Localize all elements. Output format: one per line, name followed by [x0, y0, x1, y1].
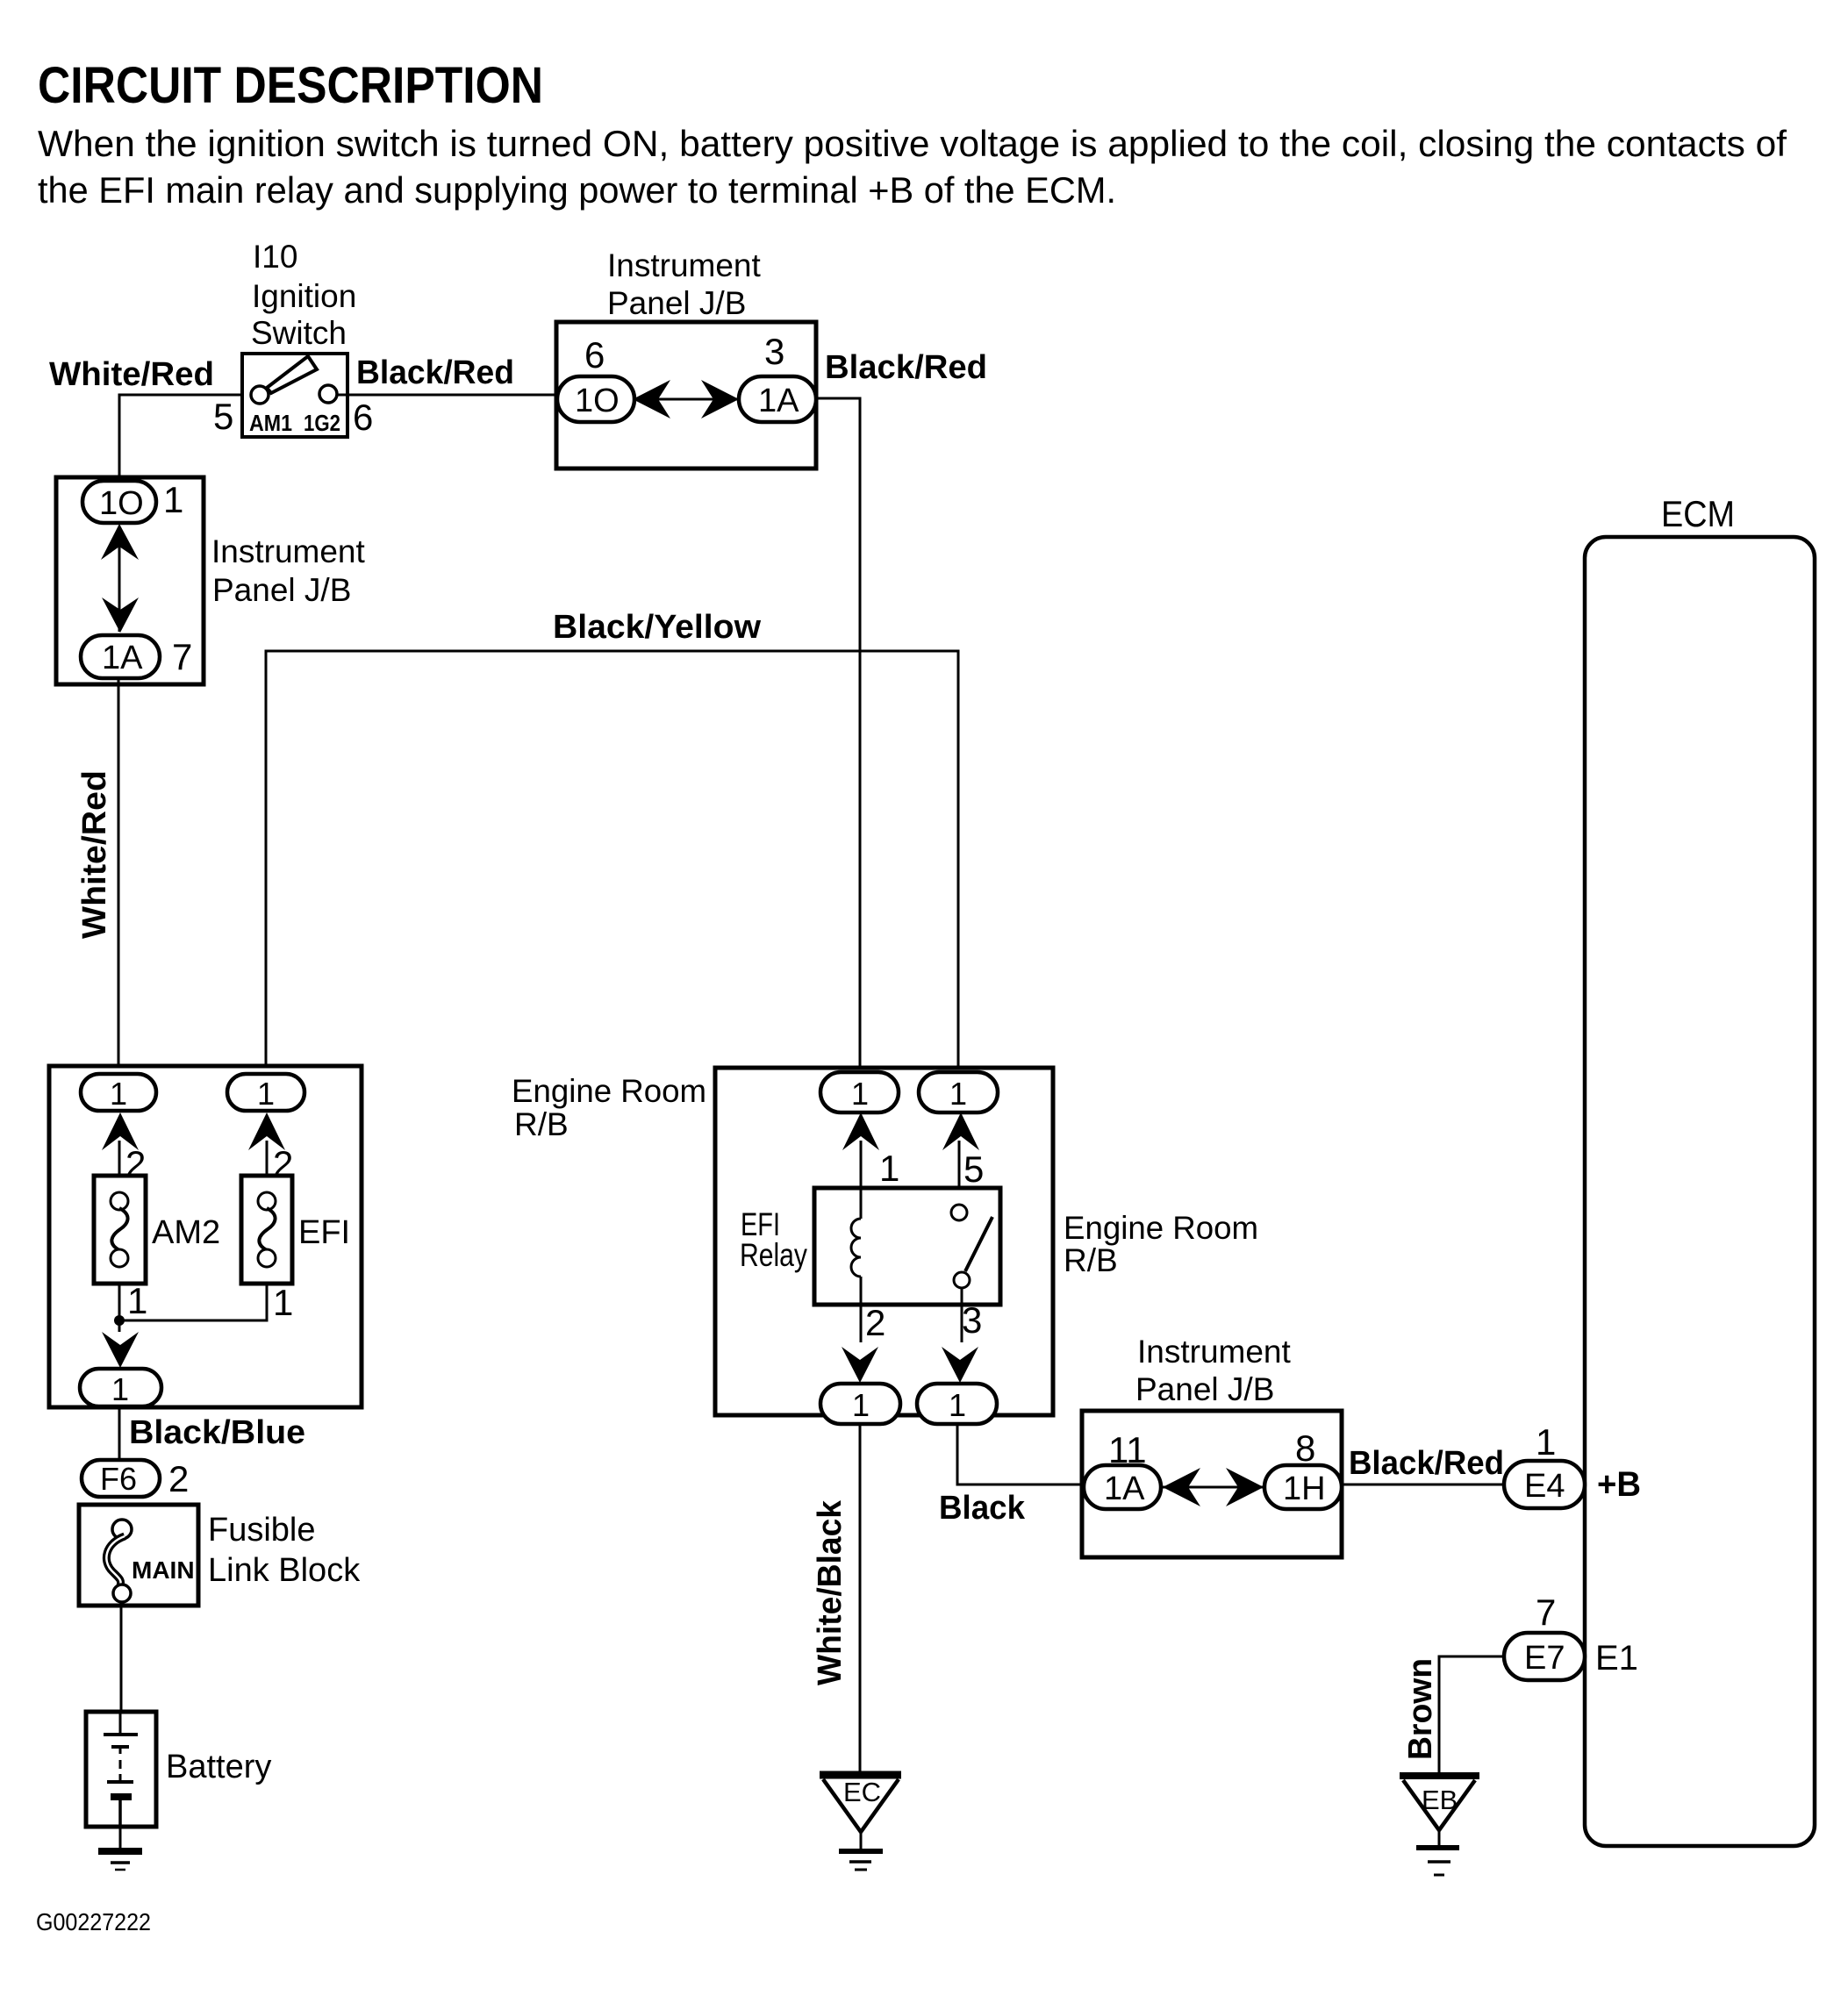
- svg-text:1: 1: [111, 1371, 129, 1407]
- pin 2 label (AM2 fuse): [125, 1143, 146, 1184]
- label: Black/Blue wire color: [129, 1414, 305, 1451]
- svg-text:White/Black: White/Black: [812, 1499, 849, 1685]
- label: EC ground name: [843, 1777, 881, 1807]
- pin 5 of ignition switch: [213, 396, 233, 437]
- svg-text:1A: 1A: [758, 383, 799, 419]
- pin 6 of ignition switch: [353, 397, 373, 438]
- pin 2 label (EFI relay): [865, 1302, 885, 1343]
- svg-text:White/Red: White/Red: [76, 770, 113, 939]
- connector oval 1A (bottom J/B) pin 11: [1084, 1465, 1161, 1509]
- connector oval F6 pin 2: [82, 1460, 160, 1497]
- label: Black wire color: [939, 1490, 1026, 1527]
- connector arrow up (left J/B): [101, 524, 139, 560]
- label: MAIN fusible link: [132, 1556, 195, 1584]
- pin 1 label (EFI fuse bottom): [273, 1282, 293, 1323]
- Instrument Panel J/B box (bottom right): [1082, 1411, 1342, 1557]
- wire between 1A and 1H (bottom J/B): [1161, 1486, 1265, 1489]
- connector arrow down (fuse block bottom): [102, 1332, 139, 1368]
- pin 11 label (bottom J/B): [1108, 1429, 1147, 1470]
- connector oval 1 (relay switch, top): [919, 1072, 998, 1112]
- pin 6 label (top J/B): [584, 334, 605, 376]
- svg-text:AM2: AM2: [152, 1214, 220, 1251]
- ignition switch contact AM1: [251, 386, 269, 404]
- wire between connectors 1O and 1A inside top J/B: [634, 398, 740, 401]
- wire from arrow to EFI fuse: [266, 1141, 269, 1176]
- label: Engine Room R/B (right): [1064, 1210, 1258, 1278]
- label: +B terminal: [1597, 1465, 1641, 1504]
- pin 2 label (F6): [168, 1458, 189, 1499]
- connector arrow down (relay pin 2): [842, 1347, 878, 1383]
- svg-text:Black: Black: [939, 1490, 1026, 1527]
- svg-text:1O: 1O: [575, 383, 620, 419]
- connector oval 1 (relay coil, top): [820, 1072, 899, 1112]
- Engine Room R/B box: [715, 1068, 1053, 1415]
- svg-text:Black/Yellow: Black/Yellow: [553, 609, 761, 646]
- fusible link block box: [79, 1505, 198, 1606]
- ECM box: [1585, 537, 1815, 1846]
- svg-text:5: 5: [963, 1148, 984, 1190]
- svg-text:Black/Red: Black/Red: [356, 354, 514, 391]
- fuse AM2: [94, 1176, 146, 1284]
- svg-text:Brown: Brown: [1402, 1658, 1439, 1760]
- label: Engine Room R/B (left): [512, 1073, 706, 1142]
- relay switch contacts and lever: [951, 1205, 992, 1288]
- svg-text:ECM: ECM: [1661, 493, 1735, 534]
- svg-text:When the ignition switch is tu: When the ignition switch is turned ON, b…: [38, 123, 1787, 164]
- junction dot: [114, 1315, 125, 1326]
- svg-text:5: 5: [213, 396, 233, 437]
- ground EB: [1400, 1776, 1479, 1875]
- wire: Black from R/B to bottom Instrument Panel J/B: [957, 1424, 1085, 1484]
- pin 3 label (top J/B): [764, 331, 784, 372]
- wire: Black/Yellow from EFI fuse up, right, and down to EFI relay switch: [266, 651, 958, 1076]
- svg-text:AM1: AM1: [249, 410, 292, 436]
- svg-text:E7: E7: [1524, 1640, 1565, 1677]
- label: EB ground name: [1422, 1785, 1458, 1815]
- svg-text:E1: E1: [1595, 1639, 1638, 1678]
- wire from EFI fuse to junction: [119, 1284, 267, 1320]
- label: White/Red wire color (vertical): [76, 770, 113, 939]
- label: Instrument Panel J/B (top): [607, 247, 762, 321]
- pin 1 label (EFI relay): [879, 1148, 899, 1189]
- wire: White/Black from R/B down to ground EC: [859, 1424, 862, 1775]
- svg-text:7: 7: [1536, 1592, 1556, 1633]
- wire: Black/Red from ignition switch IG2 to Instrument Panel J/B: [337, 394, 558, 397]
- wire from arrow to relay pin 1: [860, 1141, 863, 1188]
- ignition switch I10 box: [242, 354, 347, 437]
- svg-text:2: 2: [865, 1302, 885, 1343]
- ignition switch contact IG2: [319, 385, 337, 403]
- svg-text:6: 6: [584, 334, 605, 376]
- title: CIRCUIT DESCRIPTION: [38, 57, 543, 114]
- wire: Brown from E7 to ground EB: [1439, 1656, 1504, 1774]
- connector oval 1 (R/B bottom left): [820, 1384, 900, 1424]
- svg-text:EFI: EFI: [298, 1214, 350, 1251]
- label: Fusible Link Block: [208, 1512, 361, 1589]
- svg-text:Black/Red: Black/Red: [825, 349, 987, 386]
- svg-text:Panel J/B: Panel J/B: [607, 285, 746, 321]
- wire from arrow to relay pin 5: [958, 1141, 961, 1205]
- connector oval 1A (top J/B) pin 3: [739, 376, 816, 422]
- wire from AM2 fuse to junction: [118, 1284, 121, 1332]
- connector oval 1 (fuse block bottom): [80, 1369, 161, 1407]
- svg-text:MAIN: MAIN: [132, 1556, 195, 1584]
- relay coil: [851, 1188, 861, 1305]
- svg-text:Engine Room: Engine Room: [512, 1073, 706, 1109]
- label: AM1 terminal: [249, 410, 292, 436]
- label: 1G2 terminal: [304, 410, 340, 436]
- svg-text:Instrument: Instrument: [607, 247, 762, 283]
- svg-text:Engine Room: Engine Room: [1064, 1210, 1258, 1246]
- EFI relay box: [814, 1188, 1000, 1305]
- connector oval 1 above AM2 fuse: [81, 1074, 156, 1112]
- svg-text:1: 1: [273, 1282, 293, 1323]
- svg-text:I10: I10: [253, 239, 297, 275]
- label: White/Red wire color (top): [49, 356, 214, 393]
- svg-text:Battery: Battery: [166, 1749, 271, 1785]
- label: Black/Red wire color (bottom): [1349, 1445, 1504, 1482]
- wire: Black/Blue from fuse block to F6: [118, 1406, 121, 1462]
- svg-text:1O: 1O: [99, 485, 144, 522]
- pin 1 label (left J/B): [163, 479, 183, 520]
- label: E1 terminal: [1595, 1639, 1638, 1678]
- label: Instrument Panel J/B (bottom right): [1135, 1334, 1292, 1407]
- wire: Black/Red from bottom J/B 1H to ECM terminal +B: [1342, 1484, 1506, 1486]
- connector arrow left (top J/B): [633, 380, 670, 419]
- connector arrow left (bottom J/B): [1163, 1468, 1200, 1506]
- svg-text:1: 1: [257, 1076, 275, 1112]
- label: Black/Yellow wire color: [553, 609, 761, 646]
- wire: White/Red from left J/B down to fuse block: [118, 678, 120, 1076]
- wire inside left J/B: [118, 526, 121, 632]
- svg-text:11: 11: [1108, 1429, 1147, 1470]
- connector oval 1 (R/B bottom right): [917, 1384, 997, 1424]
- svg-text:8: 8: [1295, 1427, 1315, 1469]
- svg-text:3: 3: [962, 1299, 982, 1341]
- wire from relay pin 3 down: [961, 1288, 963, 1342]
- label: Black/Red wire color (between switch and J/B): [356, 354, 514, 391]
- svg-text:2: 2: [168, 1458, 189, 1499]
- svg-text:E4: E4: [1524, 1468, 1565, 1505]
- connector arrow up (relay switch): [942, 1112, 979, 1150]
- pin 5 label (EFI relay): [963, 1148, 984, 1190]
- connector oval 1A (left J/B) pin 7: [81, 635, 160, 678]
- svg-text:White/Red: White/Red: [49, 356, 214, 393]
- wire from arrow to AM2 fuse: [118, 1141, 121, 1176]
- pin 7 label (left J/B): [172, 636, 192, 677]
- connector arrow right (top J/B): [701, 380, 739, 419]
- label: AM2 fuse: [152, 1214, 220, 1251]
- svg-text:1: 1: [1536, 1421, 1556, 1463]
- svg-text:1: 1: [879, 1148, 899, 1189]
- svg-text:the EFI main relay and supplyi: the EFI main relay and supplying power t…: [38, 169, 1116, 211]
- wire from fusible link block to battery: [120, 1606, 123, 1712]
- svg-text:1: 1: [163, 479, 183, 520]
- svg-text:1: 1: [110, 1076, 127, 1112]
- wire from battery to ground: [119, 1827, 122, 1849]
- label: EFI Relay: [740, 1206, 807, 1273]
- wire: White/Red from ignition switch AM1 left and down to Instrument Panel J/B connector 1O: [119, 395, 251, 479]
- svg-text:1: 1: [949, 1387, 966, 1423]
- svg-text:3: 3: [764, 331, 784, 372]
- pin 7 label (E7): [1536, 1592, 1556, 1633]
- connector oval E4 pin 1: [1504, 1461, 1585, 1508]
- svg-text:7: 7: [172, 636, 192, 677]
- svg-text:Panel J/B: Panel J/B: [212, 572, 351, 608]
- svg-text:1H: 1H: [1283, 1470, 1326, 1507]
- ground EC: [820, 1775, 901, 1870]
- fusible link MAIN symbol: [106, 1520, 132, 1602]
- fuse block box: [49, 1066, 362, 1407]
- connector oval 1H (bottom J/B) pin 8: [1264, 1465, 1342, 1509]
- pin 2 label (EFI fuse): [273, 1143, 293, 1184]
- svg-text:Instrument: Instrument: [211, 533, 366, 569]
- svg-text:F6: F6: [100, 1461, 137, 1497]
- connector arrow down (relay pin 3): [942, 1347, 978, 1383]
- connector arrow right (bottom J/B): [1226, 1468, 1264, 1506]
- svg-text:Instrument: Instrument: [1137, 1334, 1292, 1370]
- connector arrow up (relay coil): [842, 1112, 879, 1150]
- connector oval E7 pin 7: [1504, 1633, 1585, 1680]
- svg-text:6: 6: [353, 397, 373, 438]
- svg-text:1: 1: [949, 1076, 967, 1112]
- svg-text:1: 1: [851, 1076, 869, 1112]
- svg-text:+B: +B: [1597, 1465, 1641, 1504]
- ground symbol (battery): [98, 1851, 142, 1870]
- svg-text:1: 1: [127, 1280, 147, 1321]
- pin 8 label (bottom J/B): [1295, 1427, 1315, 1469]
- pin 3 label (EFI relay): [962, 1299, 982, 1341]
- svg-text:1: 1: [852, 1387, 870, 1423]
- svg-text:CIRCUIT DESCRIPTION: CIRCUIT DESCRIPTION: [38, 57, 543, 114]
- svg-text:Black/Blue: Black/Blue: [129, 1414, 305, 1451]
- label: Black/Red wire color (right of top J/B): [825, 349, 987, 386]
- svg-text:R/B: R/B: [1064, 1242, 1118, 1278]
- svg-text:G00227222: G00227222: [36, 1908, 151, 1935]
- svg-text:Relay: Relay: [740, 1237, 807, 1273]
- label: Instrument Panel J/B (left): [211, 533, 366, 608]
- svg-text:EC: EC: [843, 1777, 881, 1807]
- svg-text:Fusible: Fusible: [208, 1512, 316, 1549]
- label: White/Black wire color (vertical): [812, 1499, 849, 1685]
- connector arrow down (left J/B): [102, 597, 139, 633]
- label: Brown wire color (vertical): [1402, 1658, 1439, 1760]
- label: ECM: [1661, 493, 1735, 534]
- wire from relay pin 2 down: [860, 1305, 863, 1342]
- svg-text:Panel J/B: Panel J/B: [1135, 1371, 1274, 1407]
- circuit description paragraph: [38, 123, 1787, 211]
- svg-text:1G2: 1G2: [304, 410, 340, 436]
- svg-text:1A: 1A: [1104, 1470, 1145, 1507]
- svg-text:Switch: Switch: [251, 315, 347, 351]
- Instrument Panel J/B box (left): [56, 477, 204, 684]
- svg-text:EB: EB: [1422, 1785, 1458, 1815]
- figure number G00227222: [36, 1908, 151, 1935]
- Instrument Panel J/B box (top): [556, 322, 816, 469]
- label: EFI fuse: [298, 1214, 350, 1251]
- svg-text:Black/Red: Black/Red: [1349, 1445, 1504, 1482]
- ignition switch lever: [267, 356, 317, 393]
- svg-text:1A: 1A: [102, 640, 143, 676]
- svg-text:R/B: R/B: [514, 1106, 569, 1142]
- svg-text:Ignition: Ignition: [252, 278, 356, 314]
- connector oval 1O (left J/B) pin 1: [82, 481, 156, 523]
- svg-text:Link Block: Link Block: [208, 1552, 361, 1589]
- wire: Black/Red from top J/B connector 1A down to EFI relay coil: [816, 398, 860, 1074]
- pin 1 label (E4): [1536, 1421, 1556, 1463]
- fuse EFI: [241, 1176, 292, 1284]
- connector oval 1 above EFI fuse: [227, 1074, 304, 1112]
- connector arrow up (EFI fuse): [248, 1112, 285, 1150]
- connector oval 1O (top J/B) pin 6: [557, 376, 634, 422]
- battery: [86, 1712, 156, 1827]
- label: Battery: [166, 1749, 271, 1785]
- connector arrow up (AM2 fuse): [102, 1112, 139, 1150]
- label: I10 Ignition Switch: [251, 239, 356, 351]
- pin 1 label (AM2 fuse bottom): [127, 1280, 147, 1321]
